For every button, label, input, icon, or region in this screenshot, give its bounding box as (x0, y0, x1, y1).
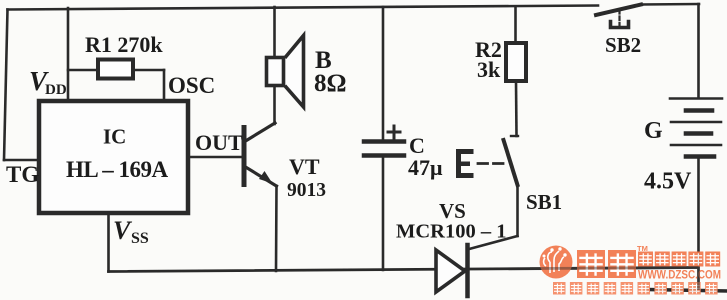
IC HL-169A box (39, 101, 188, 213)
wire: right frame bottom (battery -) (697, 156, 700, 290)
capacitor C bottom plate (364, 153, 404, 158)
wire: speaker to collector (273, 86, 276, 124)
svg-text:R1 270k: R1 270k (85, 32, 163, 57)
svg-text:SS: SS (131, 230, 149, 247)
svg-text:3k: 3k (477, 57, 501, 82)
svg-text:4.5V: 4.5V (644, 169, 692, 195)
transistor VT emitter arrowhead (259, 171, 273, 184)
speaker B coil (267, 58, 284, 86)
switch SB1 actuator dashed link (478, 162, 505, 165)
svg-text:VS: VS (439, 199, 466, 223)
watermark slogan (553, 282, 566, 295)
svg-text:MCR100 – 1: MCR100 – 1 (396, 221, 506, 243)
wire: VSS drop from IC to bottom rail (107, 214, 110, 272)
wire: speaker top feed from rail (273, 7, 276, 57)
transistor VT base bar (242, 128, 247, 185)
wire: top rail left section (8, 6, 599, 10)
wire: emitter down to bottom rail (275, 186, 278, 271)
svg-text:SB1: SB1 (526, 190, 562, 214)
svg-text:8Ω: 8Ω (314, 70, 347, 97)
wire: R1 left lead (68, 69, 98, 72)
switch SB1 blade (504, 140, 518, 185)
wire: capacitor to bottom rail (382, 156, 385, 270)
wire: cropped stub bottom right (648, 290, 727, 292)
wire: VDD drop from top rail into IC (67, 8, 70, 100)
wire: gate diagonal into VS (469, 236, 518, 249)
thyristor VS cathode bar (465, 245, 470, 296)
wire: SB1 to thyristor gate, vertical (516, 184, 519, 236)
watermark main text 维库 (553, 244, 721, 295)
watermark logo circle (540, 246, 573, 279)
wire: bottom rail (109, 268, 699, 272)
wire: R2 to SB1 fixed contact (515, 81, 518, 136)
svg-text:V: V (113, 216, 133, 245)
switch SB2 blade (596, 5, 641, 16)
capacitor C plus sign (388, 131, 400, 134)
transistor VT emitter (246, 167, 277, 186)
svg-text:SB2: SB2 (605, 33, 641, 57)
capacitor C top plate (364, 139, 404, 144)
svg-text:DD: DD (45, 82, 67, 98)
svg-text:TG: TG (6, 162, 39, 187)
wire: SB1 fixed contact tick (511, 135, 518, 137)
svg-text:47μ: 47μ (408, 155, 443, 180)
transistor VT collector (246, 123, 276, 141)
switch SB1 pushbutton actuator E (456, 149, 474, 178)
svg-text:OSC: OSC (168, 73, 215, 98)
svg-text:9013: 9013 (287, 180, 326, 201)
wire: OUT pin to transistor base (190, 156, 243, 159)
svg-text:IC: IC (103, 125, 126, 149)
switch SB2 pushbutton cup (611, 22, 629, 28)
wire: left frame down to TG (4, 10, 8, 161)
wire: right frame top (battery +) (697, 4, 700, 98)
wire: TG pin horizontal (4, 159, 39, 162)
speaker B horn (286, 36, 304, 108)
wire: capacitor top feed (382, 7, 385, 140)
resistor R1 body (98, 60, 133, 79)
wire: R1 right lead to OSC corner (134, 69, 164, 72)
svg-text:G: G (644, 118, 663, 144)
svg-text:OUT: OUT (195, 130, 243, 155)
battery G plates (670, 97, 722, 100)
switch SB2 actuator dashed link (618, 10, 620, 26)
svg-text:WWW.DZSC.COM: WWW.DZSC.COM (638, 270, 721, 282)
svg-text:HL – 169A: HL – 169A (66, 157, 168, 182)
thyristor VS triangle (anode) (436, 250, 465, 292)
watermark text dianzishichangwang (638, 252, 653, 267)
wire: OSC drop into IC (163, 70, 166, 100)
wire: bottom rail show-through over watermark (530, 268, 698, 269)
resistor R2 body (506, 43, 526, 81)
svg-text:VT: VT (289, 154, 320, 179)
wire: R2 top feed (514, 7, 517, 43)
wire: top rail right section (SB2 to battery) (640, 3, 699, 6)
